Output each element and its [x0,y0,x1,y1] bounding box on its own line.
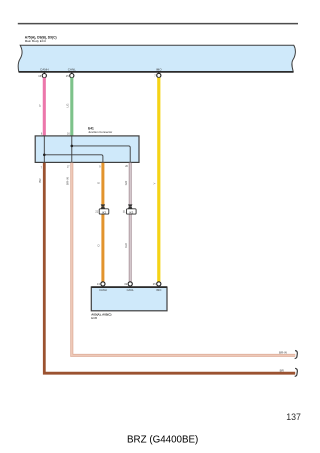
pin 16 circle [42,74,46,78]
svg-text:Main Body ECU: Main Body ECU [25,39,46,43]
junction connector E41 box [35,136,139,163]
internal wire CANL vertical [71,136,73,162]
svg-text:IK3: IK3 [129,210,134,214]
svg-text:IMO: IMO [156,288,161,292]
ECB pin 19 circle [128,282,132,286]
pin 16 stub [43,72,45,74]
svg-text:BR-W: BR-W [279,351,287,355]
internal wire CANH branch to orange [44,155,103,163]
svg-text:LG: LG [66,103,70,108]
junction node on CANH [43,154,46,157]
wire O (CANH to ECB) [101,163,104,282]
page break symbol BR [295,368,298,376]
wire Y (IMO) [157,78,160,282]
pin 15 stub [71,72,73,74]
ECB box [91,287,167,311]
svg-text:Y: Y [152,182,156,184]
svg-text:Junction Connector: Junction Connector [88,130,112,134]
pin 7 circle [157,73,161,77]
svg-text:IK3: IK3 [102,210,107,214]
inline connector IK3 on orange wire [95,204,108,214]
pin 7 stub [158,72,160,74]
wire BR run to next page [44,163,295,374]
page break symbol BR-W [295,351,298,359]
pin 15 circle [70,74,74,78]
inline connector IK3 on white wire [123,204,136,214]
ECB pin 25 circle [157,282,161,286]
svg-text:CANH: CANH [40,68,49,72]
internal wire CANH vertical [43,136,45,162]
wire BR-W run to next page [72,163,295,356]
ECB pin 13 circle [101,282,105,286]
svg-text:ECB: ECB [91,316,97,320]
svg-text:CANL: CANL [127,288,135,292]
svg-text:CANH: CANH [99,288,107,292]
svg-text:CANL: CANL [68,68,76,72]
wire P (CANH) [43,78,46,136]
svg-text:137: 137 [286,412,301,422]
svg-text:IMO: IMO [156,68,162,72]
wire LG (CANL) [70,78,73,136]
wire W (CANL to ECB) [129,163,132,282]
svg-text:BR-W: BR-W [65,177,69,185]
internal wire CANL branch to white [72,146,130,163]
svg-text:P: P [38,104,42,106]
Main Body ECU box [18,45,295,72]
junction node on CANL [71,145,74,148]
svg-text:BRZ (G4400BE): BRZ (G4400BE) [127,434,198,445]
